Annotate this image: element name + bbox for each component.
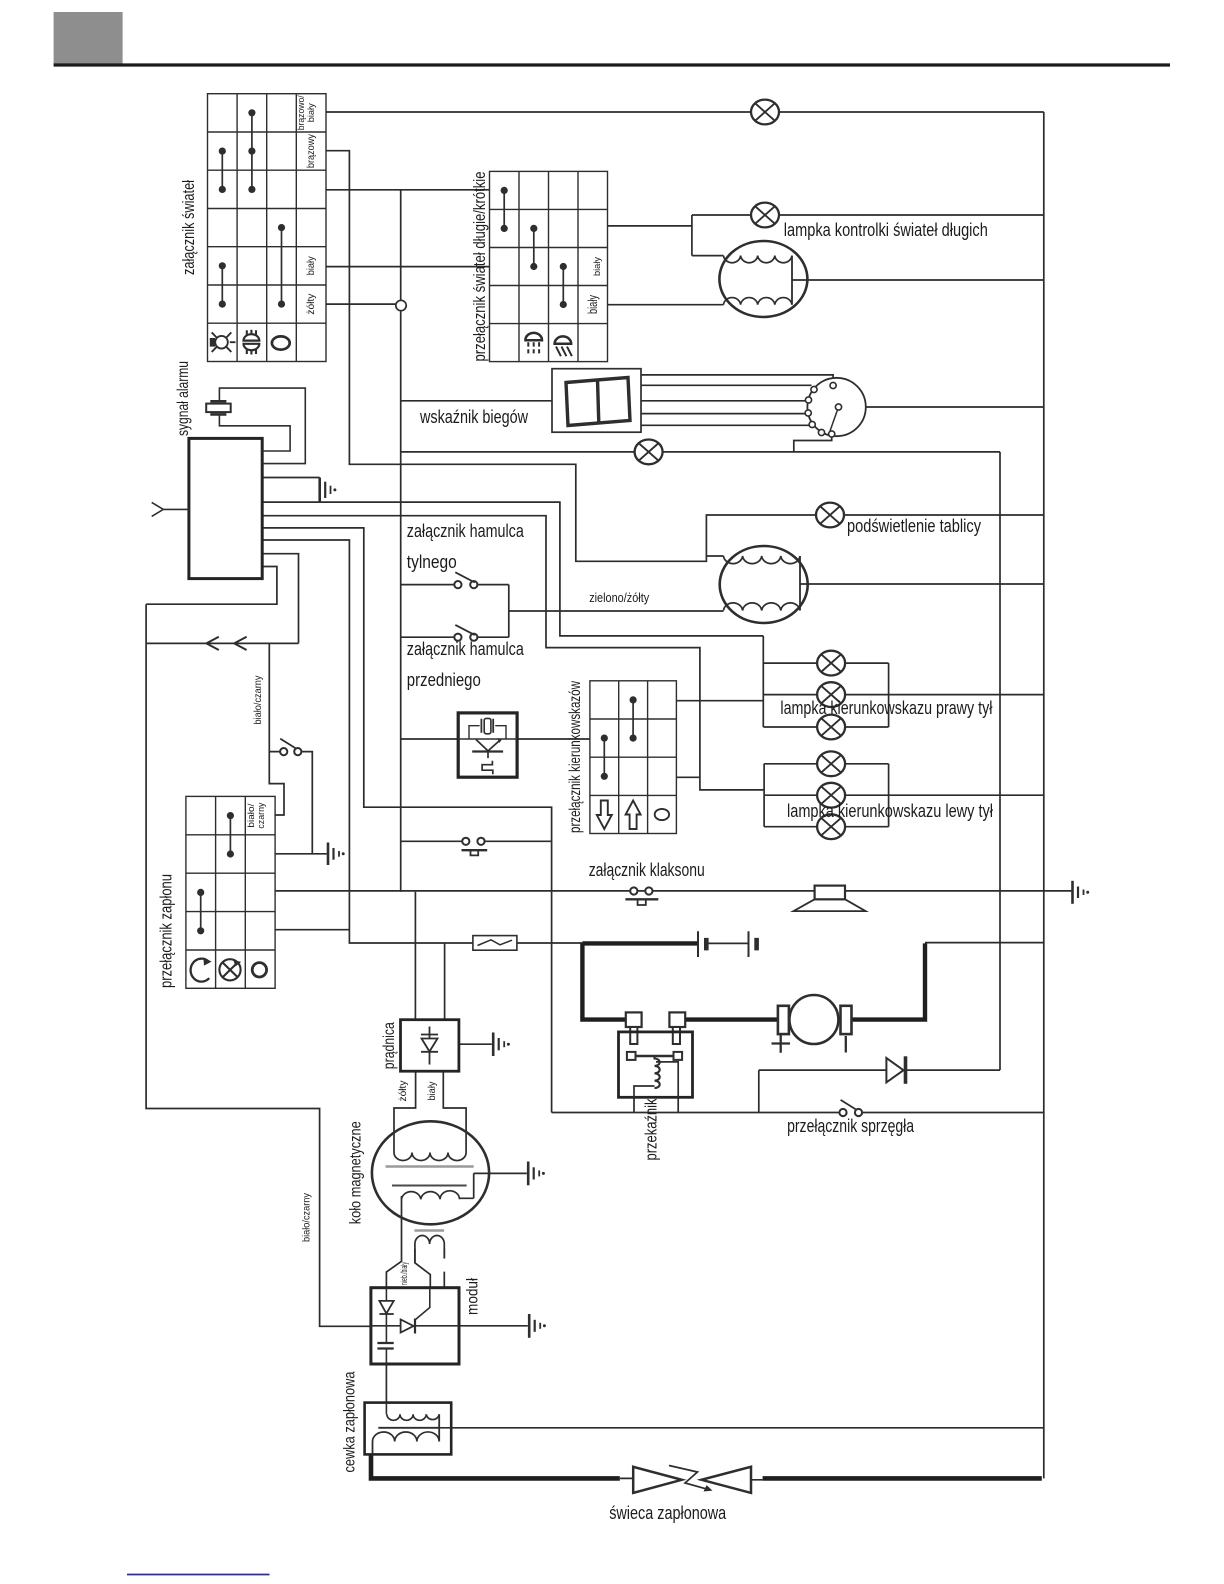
- wire indicator lamp row to x1000 vertical: [401, 451, 1000, 453]
- symbol run (crossed circle): [219, 959, 241, 980]
- symbol off O: [252, 963, 266, 977]
- svg-text:lampka kierunkowskazu lewy tył: lampka kierunkowskazu lewy tył: [787, 801, 993, 821]
- wire alarm unit a to right turn-signal rail: [262, 502, 763, 636]
- fuse: [473, 936, 517, 951]
- turn signal table przełącznik kierunkowskazów: [590, 681, 677, 834]
- flasher relay box: [458, 713, 517, 777]
- contact link col1 rows2-3: [603, 738, 605, 776]
- wire żółty: table1 row6 to node: [326, 303, 396, 305]
- svg-text:żółty: żółty: [398, 1081, 409, 1102]
- svg-text:koło magnetyczne: koło magnetyczne: [348, 1121, 365, 1224]
- wire moduł to ignition coil: [385, 1364, 387, 1413]
- wire alarm unit d to fuse and battery: [262, 540, 582, 943]
- front brake switch contacts: [454, 625, 477, 641]
- wire rear brake switch row: [401, 585, 509, 638]
- thick ignition coil HT wire to spark plug: [371, 1454, 620, 1479]
- svg-text:brązowy: brązowy: [305, 133, 317, 168]
- svg-text:biały: biały: [585, 295, 600, 314]
- symbol off O: [272, 336, 290, 349]
- svg-text:przełącznik świateł długie/kró: przełącznik świateł długie/krótkie: [471, 172, 489, 362]
- svg-text:biały: biały: [592, 257, 603, 276]
- wire gear indicator to connector pins: [641, 375, 833, 425]
- wire rear bulb top feed stub: [706, 555, 723, 557]
- magneto koło magnetyczne: [372, 1121, 489, 1224]
- symbol arrow down: [597, 801, 612, 830]
- wire generator feeds: [415, 892, 444, 1020]
- wire low-beam out of table2 to headlamp bulb: [608, 304, 724, 306]
- wire horn run from ignition switch to ground: [275, 890, 1072, 892]
- wire right turn lamp rails: [763, 636, 1044, 727]
- ground g5 (magneto): [528, 1162, 545, 1186]
- wire moduł ground lead: [459, 1325, 528, 1327]
- header rule: [54, 63, 1170, 66]
- wire pickup coil legs nieb./biały: [415, 1249, 444, 1288]
- moduł box: [371, 1288, 459, 1364]
- wire x1000 vertical: [999, 452, 1001, 1070]
- symbol start (C arrow): [191, 957, 212, 981]
- wire turn switch row3 to left feed: [676, 776, 700, 778]
- node żółty junction: [396, 300, 406, 310]
- wire turn switch row1 to right rail: [676, 700, 763, 702]
- wire ignition coil secondary return to bus: [451, 1427, 1044, 1429]
- arrowheads on connector wire: [206, 637, 246, 650]
- thick spark plug return wire: [763, 1476, 1042, 1481]
- wire left bus down to moduł: [146, 604, 371, 1326]
- wire alarm unit e to arrow connector wire: [262, 554, 298, 644]
- svg-text:świeca zapłonowa: świeca zapłonowa: [609, 1503, 727, 1523]
- wire clutch switch run: [552, 1070, 1044, 1112]
- wire magneto ground lead: [460, 1173, 527, 1198]
- lamp L7 right turn 3: [817, 715, 845, 740]
- headlamp bulb: [719, 241, 807, 317]
- diode (clutch circuit): [886, 1056, 905, 1084]
- starter motor: [772, 995, 852, 1053]
- contact link col1 rows3-4: [200, 892, 202, 930]
- horn button załącznik klaksonu: [625, 887, 658, 905]
- svg-text:załącznik świateł: załącznik świateł: [179, 180, 198, 275]
- pickup trigger coil: [415, 1231, 445, 1263]
- svg-text:czarny: czarny: [256, 802, 266, 828]
- svg-text:biało/czarny: biało/czarny: [252, 675, 264, 725]
- lamp L4 podświetlenie tablicy: [816, 503, 844, 528]
- symbol off O: [655, 809, 669, 820]
- svg-text:przedniego: przedniego: [407, 669, 481, 690]
- svg-text:przełącznik kierunkowskazów: przełącznik kierunkowskazów: [567, 681, 584, 833]
- svg-text:załącznik hamulca: załącznik hamulca: [407, 520, 525, 541]
- antenna input: [152, 502, 189, 516]
- rear bulb: [720, 546, 808, 623]
- lamp L6 right turn 2: [817, 682, 845, 707]
- connector circle (gear position plug): [805, 378, 866, 437]
- lamp L2 kontrolka świateł długich: [751, 203, 779, 228]
- contact link col2 rows1-3: [251, 113, 253, 190]
- thick battery loop wire: [582, 943, 925, 1019]
- contact link col2 rows1-2: [632, 700, 634, 738]
- contact link col3 rows4-6: [281, 228, 283, 305]
- wire battery to bus: [925, 942, 1044, 944]
- lamp L3: [635, 440, 663, 465]
- contact link col2 rows1-2: [229, 816, 231, 854]
- ground g4 (generator): [493, 1033, 510, 1057]
- generator prądnica box: [401, 1020, 459, 1071]
- symbol arrow up: [626, 801, 641, 830]
- wire diode run: [759, 1069, 1000, 1071]
- svg-text:lampka kierunkowskazu prawy ty: lampka kierunkowskazu prawy tył: [780, 698, 992, 718]
- starter button: [462, 838, 488, 856]
- wire zielono/żółty brake light to rear bulb: [509, 610, 724, 612]
- svg-text:biały: biały: [427, 1082, 438, 1101]
- wire to gear indicator: [401, 400, 552, 402]
- clutch switch przełącznik sprzęgła: [839, 1100, 862, 1116]
- kill switch contacts: [280, 739, 301, 756]
- wire arrow connector run: [146, 642, 298, 644]
- contact link col3 rows3-4: [562, 267, 564, 305]
- buzzer loop wires: [219, 388, 305, 464]
- svg-text:biały: biały: [306, 103, 317, 122]
- battery cells: [698, 931, 757, 957]
- wire starter button row: [401, 840, 552, 842]
- svg-text:sygnał alarmu: sygnał alarmu: [175, 361, 192, 436]
- wire battery link: [708, 942, 748, 944]
- buzzer sygnał alarmu: [206, 401, 231, 414]
- spark plug link stubs: [620, 1478, 763, 1479]
- lamp L10 left turn 3: [817, 814, 845, 839]
- wire alarm unit b to left turn-signal rail: [262, 516, 764, 790]
- symbol low beam: [555, 336, 572, 356]
- rear brake switch contacts: [454, 572, 477, 588]
- wire flasher feed from main vertical: [401, 738, 459, 740]
- wire headlamp bulb common to bus: [792, 279, 1044, 281]
- ignition table przełącznik zapłonu: [186, 796, 275, 988]
- ground g6 (moduł): [529, 1314, 546, 1338]
- svg-text:prądnica: prądnica: [381, 1022, 398, 1069]
- switch table załącznik świateł: [208, 94, 327, 362]
- ground g3 (horn run): [1073, 881, 1090, 904]
- wire connector bottom to indicator lamp row: [794, 436, 832, 452]
- contact link col1 rows1-2: [503, 190, 505, 228]
- svg-text:cewka zapłonowa: cewka zapłonowa: [342, 1371, 359, 1472]
- wire high-beam out of table2 with kontrolka branch: [608, 215, 1044, 256]
- lamp L5 right turn 1: [817, 651, 845, 676]
- wire brązowy: table1 row2 down, across to podświetlenie tablicy and bus: [326, 151, 1044, 562]
- wire generator to magneto (żółty / biały): [394, 1071, 466, 1152]
- svg-text:przełącznik sprzęgła: przełącznik sprzęgła: [787, 1116, 915, 1136]
- svg-text:biało/: biało/: [246, 803, 256, 828]
- wire flasher to turn-signal switch: [517, 738, 590, 740]
- wire biało/czarny to kill switch and ignition table: [269, 643, 327, 853]
- wire generator ground lead: [459, 1043, 492, 1045]
- gear indicator box wskaźnik biegów: [552, 369, 641, 433]
- svg-text:lampka kontrolki świateł długi: lampka kontrolki świateł długich: [784, 220, 988, 240]
- wire magneto coil to moduł: [386, 1196, 401, 1288]
- symbol position light: [244, 330, 260, 355]
- svg-text:biały: biały: [305, 256, 317, 276]
- svg-text:podświetlenie tablicy: podświetlenie tablicy: [847, 516, 981, 536]
- wire rear bulb common to bus: [800, 583, 1044, 585]
- wire alarm unit f to left bus: [146, 567, 277, 605]
- svg-text:nieb./biały: nieb./biały: [399, 1262, 410, 1285]
- ignition coil cewka zapłonowa: [365, 1403, 452, 1455]
- wire table1 row3 to table2: [326, 189, 490, 191]
- svg-text:przekaźnik: przekaźnik: [642, 1098, 660, 1161]
- lamp L8 left turn 1: [817, 751, 845, 776]
- contact link col1 rows5-6: [221, 266, 223, 304]
- wire relay outputs down: [634, 1097, 678, 1112]
- wire connector center to bus: [842, 406, 1044, 408]
- wire right bus (x=1044) top to ignition return: [1043, 112, 1045, 1478]
- spark plug świeca zapłonowa: [633, 1466, 751, 1493]
- header gray box: [54, 12, 123, 65]
- lamp L1 top: [751, 100, 779, 125]
- footer rule: [127, 1574, 270, 1576]
- svg-text:moduł: moduł: [465, 1278, 482, 1315]
- wire alarm unit to ground g1: [262, 477, 320, 479]
- wire brązowo/biały: table1 row1 to top lamp and right bus: [326, 111, 1044, 113]
- speaker horn: [794, 886, 866, 912]
- symbol high beam: [525, 333, 542, 354]
- relay przekaźnik: [619, 1012, 693, 1097]
- wire biały: table1 row5 to table2: [326, 266, 490, 268]
- lamp L9 left turn 2: [817, 783, 845, 808]
- wire left turn lamp rails: [764, 764, 1044, 827]
- wire ignition row4 to fuse feed: [275, 929, 349, 931]
- svg-text:zielono/żółty: zielono/żółty: [589, 591, 650, 605]
- dimmer table przełącznik świateł długie/krótkie: [490, 171, 608, 361]
- symbol headlight: [210, 332, 236, 352]
- wire alarm unit c to clutch circuit vertical: [262, 528, 551, 1113]
- svg-text:przełącznik zapłonu: przełącznik zapłonu: [157, 874, 175, 988]
- contact link col1 rows2-3: [221, 151, 223, 189]
- contact link col2 rows2-3: [533, 228, 535, 266]
- svg-text:załącznik klaksonu: załącznik klaksonu: [589, 860, 705, 880]
- ground g2 (ignition switch): [328, 843, 345, 866]
- svg-text:żółty: żółty: [305, 293, 317, 315]
- svg-text:wskaźnik biegów: wskaźnik biegów: [419, 407, 529, 427]
- svg-text:biało/czarny: biało/czarny: [300, 1192, 312, 1242]
- wire main vertical feed (x=400.7): [400, 190, 402, 892]
- ground g1 (alarm): [320, 478, 337, 503]
- svg-text:tylnego: tylnego: [407, 551, 457, 572]
- svg-text:załącznik hamulca: załącznik hamulca: [407, 638, 525, 659]
- alarm unit box: [189, 438, 262, 578]
